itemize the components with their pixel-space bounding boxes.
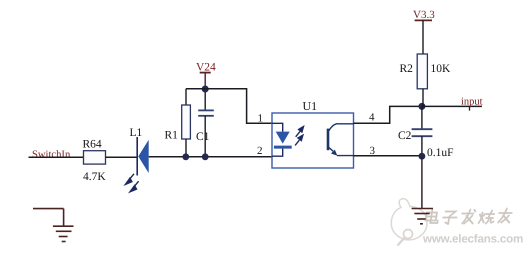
junction C2 bottom node (419, 153, 426, 160)
wire C2 node to ground (421, 156, 423, 208)
resistor R64 (83, 139, 107, 184)
svg-text:4: 4 (369, 112, 375, 124)
svg-text:C1: C1 (196, 131, 210, 143)
emission arrow 1 (125, 174, 138, 192)
glyph dian (425, 210, 439, 224)
net label input stub (469, 106, 471, 110)
junction C1/main wire (202, 153, 209, 160)
power V24 (196, 62, 216, 90)
U1 photon arrow 2 (295, 140, 299, 145)
watermark logo bubble (391, 199, 427, 246)
svg-text:V3.3: V3.3 (413, 9, 435, 21)
resistor R1 (165, 89, 191, 157)
svg-text:U1: U1 (303, 99, 318, 113)
svg-text:R1: R1 (165, 130, 179, 142)
glyph zi (442, 212, 457, 225)
U1 photon arrow 1 (295, 127, 303, 146)
emission arrow 2 (133, 181, 139, 188)
svg-text:2: 2 (257, 145, 263, 157)
svg-text:SwitchIn: SwitchIn (32, 150, 71, 161)
wire V24 rail to U1 pin1 (186, 89, 272, 124)
ground left (33, 209, 74, 242)
glyph you (498, 209, 513, 223)
junction input node (418, 103, 425, 110)
svg-text:input: input (461, 97, 483, 108)
ground right (412, 209, 433, 224)
optocoupler U1 (272, 99, 354, 168)
svg-text:R64: R64 (83, 139, 102, 151)
capacitor C2 (398, 106, 454, 159)
wire U1 pin3 to C2 node (354, 155, 422, 157)
wire SwitchIn to R64 (29, 156, 84, 158)
power V3.3 (413, 9, 435, 54)
junction V24 rail (202, 86, 209, 93)
LED L1 (125, 127, 148, 192)
resistor R2 (400, 54, 452, 106)
svg-text:10K: 10K (431, 63, 452, 75)
U1 internal LED (272, 123, 283, 131)
svg-text:1: 1 (258, 112, 264, 124)
glyph shao (479, 211, 496, 224)
wire U1 pin4 to input node (354, 106, 419, 123)
glyph fa (461, 210, 476, 224)
svg-text:www.elecfans.com: www.elecfans.com (422, 233, 523, 246)
svg-text:0.1uF: 0.1uF (427, 147, 454, 159)
junction R1/main wire (182, 153, 189, 160)
wire L1 to U1 pin2 (149, 156, 272, 158)
svg-text:L1: L1 (130, 127, 143, 139)
U1 phototransistor (328, 124, 354, 156)
wire R64 to L1 (106, 156, 138, 158)
watermark text chinese (hand-drawn glyphs) (425, 209, 512, 225)
capacitor C1 (196, 89, 214, 157)
svg-text:R2: R2 (400, 63, 414, 75)
svg-text:C2: C2 (398, 130, 412, 142)
wire input node to right (422, 105, 482, 107)
svg-text:4.7K: 4.7K (83, 171, 106, 183)
